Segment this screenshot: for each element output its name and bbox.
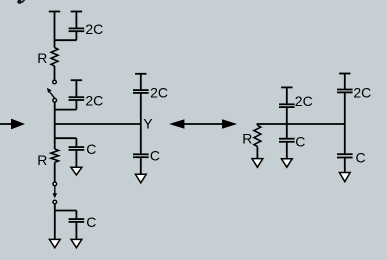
resistor R1	[51, 48, 58, 67]
capacitor C9 (2C, right branch 2 above bus)	[337, 74, 353, 125]
capacitor C5 (2C, node Y branch)	[133, 74, 149, 155]
ground (under C10)	[339, 173, 350, 182]
wire junction (C1 bottom to rail)	[55, 39, 77, 41]
ground (under C4)	[71, 239, 82, 247]
terminal T6 (capacitor C9 top)	[339, 73, 350, 75]
terminal T4 (capacitor C5 top)	[135, 73, 146, 75]
svg-text:2C: 2C	[150, 85, 168, 101]
input arrow (left edge)	[0, 119, 25, 130]
svg-text:C: C	[295, 133, 305, 149]
svg-text:2C: 2C	[85, 93, 103, 109]
wire bus (right circuit horizontal)	[257, 123, 344, 125]
wire junction (rail to C3 top)	[55, 137, 77, 139]
switch S1 (open, lever with arrow)	[47, 80, 57, 102]
svg-text:R: R	[37, 152, 47, 168]
svg-text:C: C	[86, 214, 96, 230]
ground (under C8)	[281, 159, 292, 167]
terminal T3 (capacitor C2 top)	[71, 79, 82, 81]
svg-text:2C: 2C	[85, 21, 103, 37]
capacitor C7 (2C, right branch 1 above bus)	[279, 87, 295, 124]
wire junction (rail to C4 top)	[55, 210, 77, 212]
capacitor C3 (C, below bus left)	[69, 138, 85, 167]
svg-text:2C: 2C	[295, 93, 313, 109]
double-headed arrow (equivalence)	[169, 119, 237, 128]
svg-text:2C: 2C	[353, 84, 371, 100]
capacitor C6 (C, below node Y)	[133, 154, 149, 174]
partial glyph (cut-off character) top-left	[17, 0, 24, 4]
terminal T2 (capacitor C1 top)	[71, 11, 82, 13]
wire rail (S1 to bus to R2)	[54, 102, 56, 149]
terminal T5 (capacitor C7 top)	[281, 86, 292, 88]
svg-text:R: R	[242, 131, 252, 147]
wire junction (C2 bottom to rail)	[55, 109, 77, 111]
wire (R1 to switch S1)	[54, 66, 56, 80]
wire bus (node Y horizontal)	[55, 123, 141, 125]
ground (under C3)	[71, 167, 82, 175]
svg-text:Y: Y	[143, 116, 153, 132]
capacitor C1 (2C, top left)	[69, 12, 85, 41]
wire (R2 to switch S2)	[54, 162, 56, 182]
wire rail top (T1 to R1)	[54, 12, 56, 48]
resistor R2	[51, 149, 59, 162]
ground (under R3)	[252, 159, 263, 168]
capacitor C4 (C, bottom left)	[69, 211, 85, 240]
svg-text:R: R	[37, 50, 47, 66]
ground (under C6)	[135, 174, 146, 183]
switch S2 (with down arrow)	[53, 182, 58, 204]
svg-text:C: C	[356, 149, 366, 165]
svg-text:C: C	[86, 141, 96, 157]
capacitor C8 (C, right branch 1 below bus)	[279, 124, 295, 159]
resistor R3 (right circuit)	[254, 123, 261, 158]
terminal T1 (left rail top)	[49, 11, 60, 13]
wire (S2 to bottom ground)	[54, 204, 56, 240]
svg-text:C: C	[150, 147, 160, 163]
capacitor C2 (2C, mid left)	[69, 80, 85, 109]
ground (bottom left rail)	[49, 239, 60, 247]
capacitor C10 (C, right branch 2 below bus)	[337, 124, 353, 173]
